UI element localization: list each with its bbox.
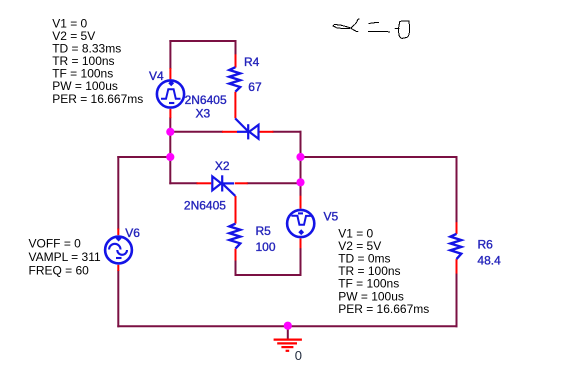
svg-text:PER = 16.667ms: PER = 16.667ms — [338, 302, 429, 316]
svg-text:FREQ = 60: FREQ = 60 — [29, 264, 90, 278]
svg-text:VAMPL = 311: VAMPL = 311 — [29, 250, 101, 264]
svg-text:X3: X3 — [196, 106, 211, 120]
svg-text:100: 100 — [256, 240, 276, 254]
svg-text:67: 67 — [248, 80, 262, 94]
svg-text:R5: R5 — [256, 224, 272, 238]
svg-text:2N6405: 2N6405 — [185, 93, 227, 107]
svg-text:PER = 16.667ms: PER = 16.667ms — [52, 92, 143, 106]
svg-text:2N6405: 2N6405 — [184, 198, 226, 212]
svg-text:R4: R4 — [244, 55, 260, 69]
svg-text:0: 0 — [295, 348, 302, 363]
svg-text:V4: V4 — [149, 69, 164, 83]
svg-text:V6: V6 — [125, 226, 140, 240]
svg-text:R6: R6 — [478, 238, 494, 252]
svg-text:V5: V5 — [324, 209, 339, 223]
svg-text:X2: X2 — [215, 159, 230, 173]
svg-text:48.4: 48.4 — [477, 254, 501, 268]
svg-text:VOFF = 0: VOFF = 0 — [29, 236, 82, 250]
